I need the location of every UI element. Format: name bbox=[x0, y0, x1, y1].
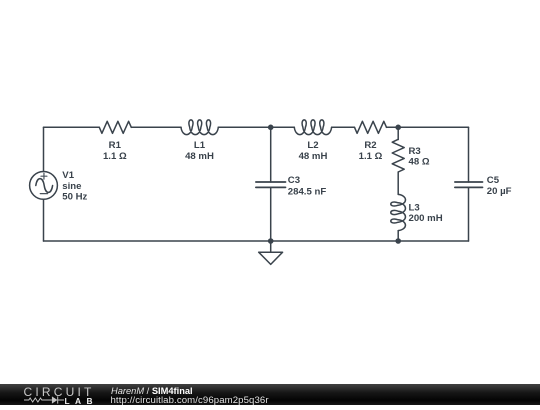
svg-text:20 µF: 20 µF bbox=[487, 186, 512, 197]
svg-text:R2: R2 bbox=[364, 140, 376, 151]
svg-text:L2: L2 bbox=[307, 140, 318, 151]
svg-text:284.5 nF: 284.5 nF bbox=[288, 187, 327, 198]
svg-text:C5: C5 bbox=[487, 175, 500, 186]
svg-text:50 Hz: 50 Hz bbox=[62, 191, 87, 202]
svg-text:200 mH: 200 mH bbox=[409, 213, 443, 224]
svg-text:L3: L3 bbox=[409, 203, 420, 214]
svg-text:48 Ω: 48 Ω bbox=[409, 156, 430, 167]
svg-text:R1: R1 bbox=[109, 140, 122, 151]
svg-text:R3: R3 bbox=[409, 146, 421, 157]
svg-text:V1: V1 bbox=[62, 170, 74, 181]
svg-text:48 mH: 48 mH bbox=[299, 151, 328, 162]
svg-text:C3: C3 bbox=[288, 175, 300, 186]
svg-text:sine: sine bbox=[62, 181, 81, 192]
svg-text:48 mH: 48 mH bbox=[185, 151, 214, 162]
svg-text:1.1 Ω: 1.1 Ω bbox=[103, 151, 127, 162]
svg-text:L1: L1 bbox=[194, 140, 206, 151]
svg-text:1.1 Ω: 1.1 Ω bbox=[359, 151, 383, 162]
